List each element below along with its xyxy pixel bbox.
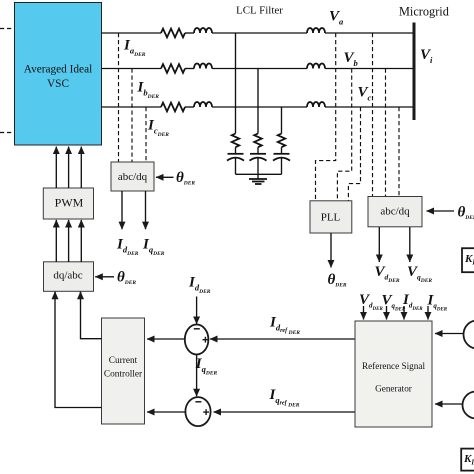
- input arrow Id DER into generator: [403, 306, 405, 320]
- summing junction S2: [185, 397, 210, 426]
- resistor Rb: [161, 64, 185, 73]
- filter cap branch c wire: [281, 107, 283, 134]
- voltage tap Vc to PLL dashed: [348, 107, 360, 201]
- input arrow Vd DER into generator: [363, 306, 365, 320]
- wire phase c from VSC: [101, 106, 161, 108]
- controller output d to dq/abc: [81, 292, 102, 339]
- wire phase b to bus: [325, 68, 414, 70]
- current sense tap a dashed: [118, 33, 120, 162]
- wire: [185, 106, 194, 108]
- svg-text:VSC: VSC: [47, 78, 69, 90]
- wire phase b mid: [212, 68, 307, 70]
- svg-text:dq/abc: dq/abc: [53, 270, 82, 282]
- wire: [235, 147, 237, 153]
- theta DER into dq/abc: [95, 270, 136, 287]
- Reference Signal Generator block: [355, 321, 432, 427]
- wire: [185, 32, 194, 34]
- inductor Lb2: [307, 64, 325, 69]
- PLL block: [310, 201, 352, 233]
- capacitor Cfa: [227, 154, 244, 161]
- voltage tap Vb to PLL dashed: [337, 69, 351, 202]
- droop circle top right: [464, 321, 474, 349]
- svg-text:PWM: PWM: [55, 195, 84, 209]
- wire theta out of PLL: [330, 233, 332, 268]
- wire S1 to S2 Iq: [196, 355, 198, 397]
- droop input wire top right: [435, 333, 464, 335]
- wire phase a to bus: [325, 32, 414, 34]
- wire S1 to controller: [147, 338, 185, 340]
- inductor La1: [194, 28, 212, 33]
- wire Vd out of abc/dq right: [378, 227, 380, 262]
- wire S2 to controller: [147, 411, 185, 413]
- svg-text:Controller: Controller: [104, 370, 143, 380]
- svg-text:Microgrid: Microgrid: [399, 5, 449, 19]
- filter cap branch a wire: [235, 33, 237, 134]
- wire phase c to bus: [325, 106, 414, 108]
- abc/dq block right: [368, 197, 422, 227]
- input arrow Iq DER into generator: [427, 306, 429, 320]
- abc/dq block left: [111, 162, 154, 191]
- gain block K bottom right: [461, 449, 474, 471]
- dashed stub left top: [0, 28, 14, 30]
- wire cap b to bus: [257, 158, 259, 174]
- capacitor Cfb: [250, 154, 267, 161]
- svg-text:Current: Current: [109, 356, 138, 366]
- inductor Lc2: [307, 102, 325, 107]
- svg-text:Generator: Generator: [375, 384, 412, 394]
- voltage tap Vc to abc/dq dashed: [398, 107, 400, 196]
- wire cap a to bus: [235, 158, 237, 174]
- wire Idref into S1: [210, 338, 355, 340]
- inductor Lc1: [194, 102, 212, 107]
- current sense tap c dashed: [145, 107, 147, 162]
- VSC block U1 Averaged Ideal VSC: [15, 3, 102, 146]
- voltage tap Va to abc/dq dashed: [372, 33, 374, 196]
- wire Iq out of abc/dq left: [145, 191, 147, 229]
- wire phase c mid: [212, 106, 307, 108]
- droop input wire bottom right: [435, 403, 462, 405]
- gain block K top right: [462, 248, 474, 272]
- svg-text:LCL Filter: LCL Filter: [236, 5, 283, 17]
- wire Iqref into S2: [214, 411, 356, 413]
- inductor Lb1: [194, 64, 212, 69]
- wire phase a from VSC: [101, 32, 161, 34]
- dq/abc block: [44, 262, 94, 292]
- resistor Rfa: [232, 134, 240, 148]
- capacitor Cfc: [273, 154, 290, 161]
- summing junction S1: [185, 325, 209, 355]
- gate wires PWM to VSC: [56, 147, 81, 188]
- wire: [257, 147, 259, 153]
- dashed stub left bottom: [0, 132, 14, 134]
- svg-text:Averaged Ideal: Averaged Ideal: [24, 64, 92, 76]
- svg-text:abc/dq: abc/dq: [380, 206, 410, 218]
- resistor Rfc: [278, 134, 286, 148]
- wire cap c to bus: [281, 158, 283, 174]
- resistor Rfb: [254, 134, 262, 148]
- wire Id into S1: [196, 297, 198, 325]
- controller output q to dq/abc: [55, 292, 102, 408]
- wire Vq out of abc/dq right: [409, 227, 411, 262]
- input arrow Vq DER into generator: [386, 306, 388, 320]
- theta DER into abc/dq left: [156, 170, 195, 187]
- svg-text:Reference Signal: Reference Signal: [362, 361, 425, 371]
- PWM block: [43, 188, 93, 219]
- resistor Rc: [161, 103, 185, 112]
- wires dq/abc to PWM: [56, 220, 81, 262]
- wire: [281, 147, 283, 153]
- microgrid bus: [413, 23, 416, 121]
- wire Id out of abc/dq left: [121, 191, 123, 229]
- ground: [249, 174, 267, 184]
- wire: [185, 68, 194, 70]
- droop circle bottom right: [463, 392, 474, 419]
- common return wire: [236, 173, 282, 175]
- svg-text:abc/dq: abc/dq: [118, 171, 148, 183]
- wire phase b from VSC: [101, 68, 161, 70]
- voltage tap Va to PLL dashed: [316, 33, 336, 201]
- voltage tap Vb to abc/dq dashed: [385, 69, 387, 197]
- resistor Ra: [161, 29, 185, 38]
- wire phase a mid: [212, 32, 307, 34]
- Current Controller block: [102, 318, 145, 424]
- theta DER into abc/dq right: [427, 205, 474, 222]
- svg-text:PLL: PLL: [321, 212, 341, 224]
- current sense tap b dashed: [131, 69, 133, 163]
- filter cap branch b wire: [257, 69, 259, 134]
- inductor La2: [307, 28, 325, 33]
